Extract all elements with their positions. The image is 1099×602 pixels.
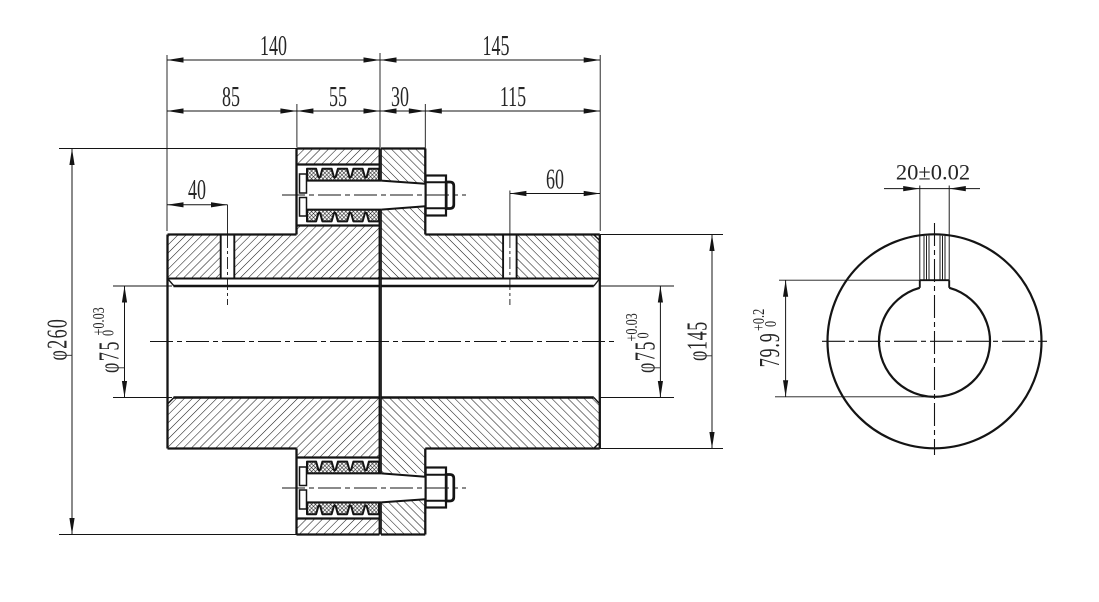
svg-text:30: 30 xyxy=(391,82,409,113)
svg-text:φ145: φ145 xyxy=(682,321,713,361)
svg-text:140: 140 xyxy=(260,31,287,62)
svg-text:85: 85 xyxy=(222,82,240,113)
svg-text:0: 0 xyxy=(635,332,653,338)
svg-text:115: 115 xyxy=(500,82,526,113)
svg-text:40: 40 xyxy=(188,175,206,206)
svg-text:60: 60 xyxy=(546,164,564,195)
svg-text:φ260: φ260 xyxy=(42,318,73,361)
svg-text:φ75: φ75 xyxy=(630,340,661,373)
svg-text:0: 0 xyxy=(100,330,118,336)
svg-text:145: 145 xyxy=(483,31,510,62)
svg-text:0: 0 xyxy=(762,321,780,327)
svg-text:79.9: 79.9 xyxy=(755,332,786,367)
svg-text:55: 55 xyxy=(329,82,347,113)
svg-text:φ75: φ75 xyxy=(94,340,125,373)
svg-text:20±0.02: 20±0.02 xyxy=(896,160,970,185)
